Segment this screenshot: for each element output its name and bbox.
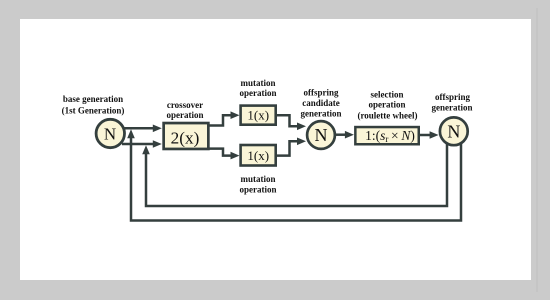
svg-text:offspring: offspring bbox=[303, 88, 339, 98]
box: selection 1:(sr x N) bbox=[355, 127, 418, 144]
node: base generation circle N bbox=[96, 119, 124, 147]
svg-text:selection: selection bbox=[371, 90, 404, 100]
label: mutation operation (lower) bbox=[240, 174, 277, 195]
label: base generation (1st Generation) bbox=[62, 94, 125, 116]
box: upper mutation 1(x) bbox=[241, 106, 276, 125]
svg-text:2(x): 2(x) bbox=[171, 128, 200, 147]
svg-text:generation: generation bbox=[301, 108, 342, 118]
label: crossover operation bbox=[167, 100, 204, 120]
label: mutation operation (upper) bbox=[240, 78, 277, 98]
svg-text:(roulette wheel): (roulette wheel) bbox=[357, 110, 417, 120]
svg-text:operation: operation bbox=[167, 110, 204, 120]
wire: crossover box to upper mutation box bbox=[208, 111, 240, 125]
svg-text:1(x): 1(x) bbox=[247, 148, 269, 163]
svg-text:mutation: mutation bbox=[240, 78, 275, 88]
label: offspring generation bbox=[432, 92, 473, 113]
svg-text:mutation: mutation bbox=[240, 174, 275, 184]
wire: lower mutation box to offspring candidate N bbox=[276, 138, 306, 156]
svg-text:offspring: offspring bbox=[435, 92, 471, 102]
svg-text:1(x): 1(x) bbox=[247, 108, 269, 123]
svg-text:operation: operation bbox=[240, 185, 277, 195]
svg-text:1:(sr × N): 1:(sr × N) bbox=[365, 128, 415, 144]
faint page-edge shadow line bbox=[536, 8, 538, 292]
wire: selection box to offspring generation N bbox=[420, 131, 439, 139]
svg-text:generation: generation bbox=[432, 103, 473, 113]
label: offspring candidate generation bbox=[301, 88, 342, 119]
svg-text:N: N bbox=[315, 125, 328, 145]
svg-text:(1st Generation): (1st Generation) bbox=[62, 106, 125, 116]
label: selection operation (roulette wheel) bbox=[357, 90, 417, 121]
wire: feedback inner loop from offspring generation to crossover lower input bbox=[142, 144, 447, 206]
svg-text:operation: operation bbox=[240, 88, 277, 98]
node: offspring generation circle N bbox=[440, 117, 468, 145]
wire: offspring candidate N to selection box bbox=[335, 131, 354, 139]
svg-text:candidate: candidate bbox=[302, 98, 340, 108]
svg-text:base generation: base generation bbox=[63, 94, 123, 104]
wire: base generation N to crossover box, lower input bbox=[122, 140, 162, 148]
svg-text:N: N bbox=[447, 121, 460, 141]
box: crossover 2(x) bbox=[164, 123, 209, 149]
wire: upper mutation box to offspring candidate N bbox=[276, 115, 306, 130]
wire: feedback outer loop from offspring generation to crossover upper input bbox=[127, 129, 461, 220]
svg-text:N: N bbox=[104, 124, 116, 143]
wire: base generation N to crossover box, upper input bbox=[122, 125, 162, 133]
svg-text:crossover: crossover bbox=[167, 100, 203, 110]
box: lower mutation 1(x) bbox=[241, 145, 276, 166]
wire: crossover box to lower mutation box bbox=[208, 149, 240, 160]
svg-text:operation: operation bbox=[369, 100, 406, 110]
node: offspring candidate circle N bbox=[307, 121, 335, 149]
